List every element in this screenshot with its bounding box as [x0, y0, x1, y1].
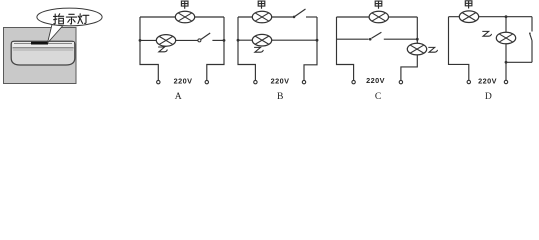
switch B blade	[295, 9, 306, 17]
lamp 乙 circuit A	[156, 35, 175, 47]
wire D lamp branch vertical	[505, 17, 507, 63]
wire C middle branch right	[384, 38, 418, 40]
label 指示灯	[54, 14, 89, 24]
灯	[78, 14, 89, 24]
appliance lid band	[13, 47, 74, 49]
switch D pivot tip	[529, 32, 531, 34]
terminal C left	[352, 80, 355, 83]
label 甲 (A)	[181, 1, 188, 9]
wire D right vertical lower	[531, 41, 533, 63]
wire A middle right stub	[212, 39, 224, 41]
label 乙 (C)	[428, 47, 437, 52]
svg-text:220V: 220V	[366, 76, 385, 85]
terminal B right	[302, 80, 305, 83]
label 甲 (B)	[258, 1, 265, 9]
lamp 乙 circuit B	[252, 34, 271, 46]
terminal B left	[254, 80, 257, 83]
示	[66, 14, 76, 24]
label 乙 (A)	[158, 47, 167, 52]
node B middle-right junction	[316, 39, 319, 42]
svg-text:D: D	[485, 91, 492, 102]
svg-text:C: C	[375, 91, 381, 102]
switch C pivot	[369, 38, 372, 41]
lamp 甲 circuit A	[175, 11, 194, 23]
lamp 甲 circuit C	[369, 11, 388, 23]
wire C right vertical through lamp + bottom step	[401, 17, 417, 80]
lamp 甲 circuit B	[252, 11, 271, 23]
label 甲 (C)	[375, 1, 382, 9]
terminal D right	[504, 80, 507, 83]
svg-text:A: A	[175, 91, 182, 102]
node B middle-left junction	[237, 39, 240, 42]
switch C blade	[372, 32, 382, 38]
指	[54, 14, 64, 24]
wire A middle branch	[140, 39, 198, 41]
switch B pivot	[293, 16, 296, 19]
seam line right of strip	[48, 42, 72, 44]
terminal C right	[399, 80, 402, 83]
wire B middle branch	[238, 39, 317, 41]
appliance lid top band	[12, 42, 74, 48]
node A middle-left junction	[139, 39, 142, 42]
svg-text:220V: 220V	[174, 77, 193, 86]
wire A left vertical + bottom step	[140, 17, 158, 80]
wire C middle branch left	[337, 38, 369, 40]
switch A pivot	[198, 39, 201, 42]
switch D blade	[530, 34, 532, 41]
terminal A right	[205, 80, 208, 83]
wire D left vertical + bottom step	[449, 17, 469, 81]
node D bottom junction	[505, 61, 508, 64]
callout tail	[48, 25, 64, 44]
wire B top-left	[238, 16, 293, 18]
terminal A left	[157, 80, 160, 83]
lamp 甲 circuit D	[459, 11, 478, 23]
switch A blade	[201, 33, 210, 40]
node D top junction	[505, 15, 508, 18]
photo background box	[4, 28, 77, 84]
label 乙 (D)	[482, 31, 491, 36]
lamp 乙 circuit C	[407, 43, 426, 55]
svg-text:220V: 220V	[271, 77, 290, 86]
node C middle-right junction	[416, 38, 419, 41]
lamp 乙 circuit D	[496, 32, 515, 44]
wire B top-right	[306, 16, 317, 18]
wire D top	[449, 16, 533, 18]
svg-text:B: B	[277, 91, 283, 102]
callout bubble	[37, 8, 102, 26]
wire C left vertical + bottom step	[337, 17, 354, 80]
wire A right vertical + bottom step	[207, 17, 224, 80]
appliance body (pill shape)	[11, 41, 75, 65]
wire D terminal stub	[505, 62, 507, 80]
wire D bottom horizontal	[506, 61, 532, 63]
svg-text:220V: 220V	[478, 76, 497, 85]
label 甲 (D)	[465, 1, 472, 9]
wire C top	[337, 16, 418, 18]
wire A top	[140, 16, 224, 18]
wire B right vertical + bottom step	[304, 17, 317, 80]
node A middle-right junction	[223, 39, 226, 42]
indicator strip (dark)	[31, 42, 48, 45]
label 乙 (B)	[254, 47, 263, 52]
wire D right vertical upper	[531, 17, 533, 32]
terminal D left	[467, 80, 470, 83]
wire B left vertical + bottom step	[238, 17, 255, 80]
